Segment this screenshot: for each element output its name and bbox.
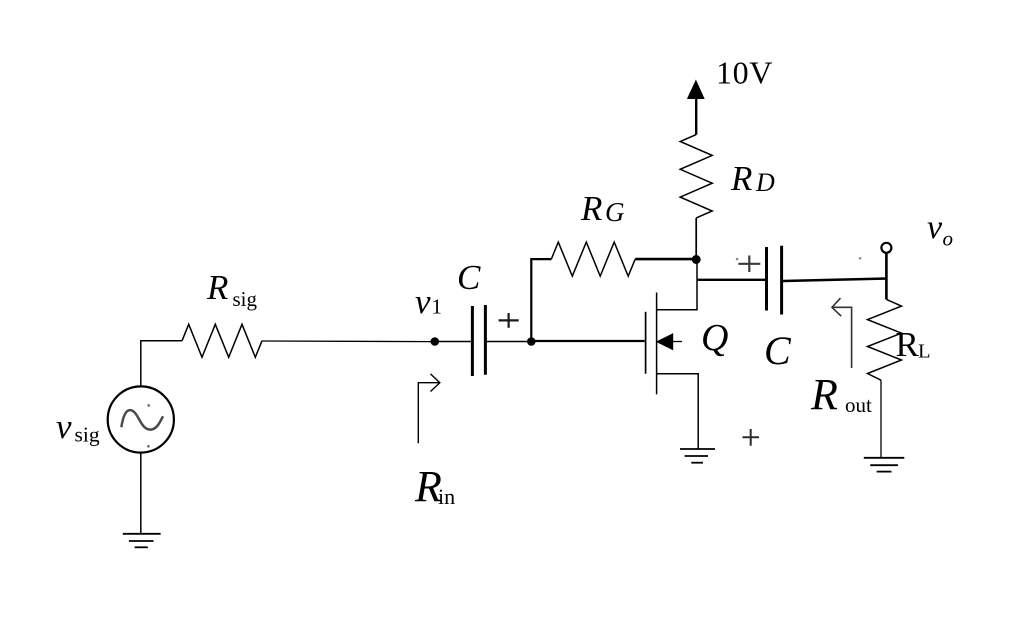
label Rout [810, 370, 872, 419]
capacitor C1 (input coupling cap) [472, 305, 485, 376]
svg-text:in: in [438, 484, 455, 509]
svg-text:L: L [918, 341, 931, 363]
label RD [730, 159, 775, 198]
plus sign (input cap polarity) [499, 313, 519, 328]
label v1 [415, 282, 442, 321]
svg-text:D: D [755, 168, 775, 197]
wire RL to ground [880, 380, 882, 458]
node A (gate node dot) [527, 337, 536, 346]
wire source bottom to ground [140, 453, 142, 534]
ground (under RL) [864, 458, 905, 472]
gate lead wire [533, 340, 645, 342]
wire C1 to gate node [487, 341, 529, 343]
node drain (dot) [692, 255, 701, 264]
svg-text:R: R [896, 325, 920, 364]
svg-text:o: o [943, 227, 954, 251]
svg-text:v: v [927, 209, 943, 246]
label Rsig [206, 268, 258, 311]
arrow Rout (pointing up-left) [832, 298, 852, 368]
power supply 10V arrow [687, 80, 705, 135]
svg-text:R: R [580, 189, 602, 228]
terminal vo (open circle) [881, 243, 891, 253]
svg-text:sig: sig [75, 423, 100, 447]
ground (under Q source) [680, 449, 715, 463]
svg-text:R: R [730, 159, 752, 198]
svg-text:R: R [206, 268, 228, 307]
node v1 (dot) [431, 337, 440, 346]
resistor Rsig [182, 324, 262, 357]
drain lead wire [657, 261, 697, 310]
label RL [896, 325, 931, 364]
svg-text:Q: Q [701, 317, 728, 359]
source vsig (sine source circle) [108, 386, 174, 452]
wire Rsig to node v1 [262, 340, 431, 343]
gate bar [645, 312, 647, 374]
plus sign (output cap polarity) [738, 256, 760, 273]
label RG [580, 189, 625, 228]
channel bar [656, 293, 658, 395]
label Rin [414, 462, 455, 511]
svg-text:C: C [764, 328, 792, 373]
resistor RD [680, 135, 712, 218]
svg-text:1: 1 [432, 295, 443, 319]
resistor RL [868, 299, 902, 380]
svg-text:v: v [415, 282, 431, 321]
resistor RG [551, 242, 635, 276]
capacitor C2 (output coupling cap) [767, 246, 782, 315]
ground (under vsig) [123, 534, 161, 548]
svg-text:R: R [810, 370, 838, 419]
svg-text:10V: 10V [716, 55, 773, 91]
stray dot 2 [859, 257, 862, 260]
wire gate node up to RG [531, 259, 551, 339]
svg-text:out: out [845, 393, 872, 417]
plus sign (stray, below output cap) [743, 429, 760, 446]
wire vo to RL [885, 253, 888, 299]
source lead wire [657, 374, 699, 449]
svg-text:sig: sig [233, 287, 258, 311]
wire RG to drain node [635, 258, 693, 261]
label vo [927, 209, 953, 251]
svg-text:C: C [457, 258, 481, 297]
arrow into channel [656, 333, 673, 350]
label vsig [56, 407, 100, 447]
wire RD bottom lead to drain node [695, 218, 697, 256]
transistor Q (MOSFET) [533, 261, 698, 449]
wire source top to Rsig [141, 341, 182, 387]
wire drain node to output cap [697, 279, 765, 281]
svg-text:G: G [605, 197, 625, 227]
arrow Rin (pointing right) [418, 374, 440, 443]
stray dot 1 [736, 258, 739, 261]
wire v1 to capacitor C1 [439, 341, 471, 343]
svg-text:v: v [56, 407, 72, 446]
wire output cap to vo terminal [783, 279, 888, 282]
